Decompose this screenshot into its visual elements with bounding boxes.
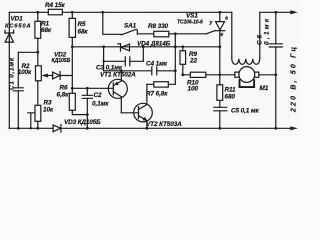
svg-text:R3: R3 bbox=[44, 100, 53, 107]
resistor R7 bbox=[147, 82, 175, 87]
resistor R1 bbox=[35, 12, 41, 66]
wire C1 branch bbox=[18, 52, 38, 128]
svg-text:С1 0,1мк: С1 0,1мк bbox=[9, 57, 16, 90]
svg-text:R11: R11 bbox=[225, 87, 236, 94]
svg-text:VS1: VS1 bbox=[186, 13, 198, 20]
node mains terminal bottom arrow bbox=[290, 126, 298, 130]
capacitor C1 bbox=[13, 88, 23, 91]
resistor R9 bbox=[180, 47, 186, 75]
motor M1 bbox=[220, 67, 276, 88]
svg-text:R6: R6 bbox=[60, 85, 69, 92]
inductor L motor field winding bbox=[232, 12, 260, 64]
switch SA1 bbox=[103, 12, 154, 35]
svg-text:22: 22 bbox=[189, 58, 197, 65]
svg-text:С3 0,1мк: С3 0,1мк bbox=[96, 65, 123, 72]
svg-text:VD4 Д814Б: VD4 Д814Б bbox=[137, 41, 171, 48]
capacitor C4 bbox=[152, 67, 157, 75]
resistor R11 bbox=[217, 75, 223, 108]
wire bottom rail bbox=[9, 127, 291, 129]
resistor R10 bbox=[190, 72, 206, 77]
svg-text:С4 1мк: С4 1мк bbox=[146, 61, 168, 68]
resistor R3 trimmer bbox=[28, 105, 41, 128]
wire top rail bbox=[9, 11, 291, 13]
svg-text:R8 330: R8 330 bbox=[148, 23, 169, 30]
wire gate drive vertical bbox=[174, 34, 176, 85]
wire node A horizontal (zener bus) bbox=[72, 46, 220, 48]
svg-text:680: 680 bbox=[225, 94, 236, 101]
capacitor C2 bbox=[82, 88, 92, 128]
resistor R4 bbox=[48, 9, 62, 15]
svg-text:R4 15к: R4 15к bbox=[45, 2, 66, 9]
resistor R2 potentiometer bbox=[36, 66, 48, 106]
svg-text:R5: R5 bbox=[78, 21, 87, 28]
svg-text:VD3 КД105Б: VD3 КД105Б bbox=[64, 119, 101, 126]
wire left rail bbox=[8, 12, 10, 128]
capacitor C3 parallel loop bbox=[104, 47, 144, 71]
svg-text:6,8к: 6,8к bbox=[57, 92, 70, 99]
capacitor C5 bbox=[214, 107, 227, 128]
svg-text:SA1: SA1 bbox=[124, 23, 137, 30]
node mains terminal top arrow bbox=[290, 10, 298, 14]
svg-text:М1: М1 bbox=[260, 85, 269, 92]
svg-text:100: 100 bbox=[188, 86, 199, 93]
resistor R5 bbox=[69, 12, 75, 93]
svg-text:VD1: VD1 bbox=[11, 16, 24, 23]
diode VD3 bbox=[53, 125, 61, 133]
capacitor C6 bbox=[269, 12, 282, 128]
svg-text:VT1 КТ502А: VT1 КТ502А bbox=[100, 72, 136, 79]
svg-text:0,1мк: 0,1мк bbox=[92, 101, 109, 108]
resistor R6 bbox=[69, 93, 87, 114]
transistor VT1 bbox=[72, 71, 127, 113]
svg-text:С2: С2 bbox=[94, 92, 103, 99]
svg-text:ТС106-10-6: ТС106-10-6 bbox=[177, 20, 203, 26]
wire VT1 collector to VT2 base bbox=[121, 112, 138, 114]
svg-text:КС650А: КС650А bbox=[5, 24, 31, 30]
svg-text:а: а bbox=[225, 16, 228, 22]
svg-text:10к: 10к bbox=[43, 107, 54, 114]
resistor R8 bbox=[154, 31, 207, 37]
thyristor VS1 bbox=[206, 12, 225, 75]
svg-text:С5 0,1 мк: С5 0,1 мк bbox=[231, 108, 260, 115]
wire node B horizontal bbox=[183, 74, 220, 76]
diode VD2 bbox=[46, 72, 72, 80]
svg-text:VT2 КТ503А: VT2 КТ503А bbox=[146, 121, 182, 128]
wire emitter bus y70.5 bbox=[104, 70, 176, 72]
zener diode VD1 bbox=[5, 30, 14, 42]
svg-text:R7 6,8к: R7 6,8к bbox=[146, 91, 168, 98]
svg-text:КД105Б: КД105Б bbox=[52, 58, 71, 64]
svg-text:100к: 100к bbox=[18, 69, 32, 76]
zener diode VD4 bbox=[118, 44, 130, 52]
transistor VT2 bbox=[134, 84, 153, 128]
svg-text:68к: 68к bbox=[41, 27, 52, 34]
svg-text:68к: 68к bbox=[78, 29, 89, 36]
